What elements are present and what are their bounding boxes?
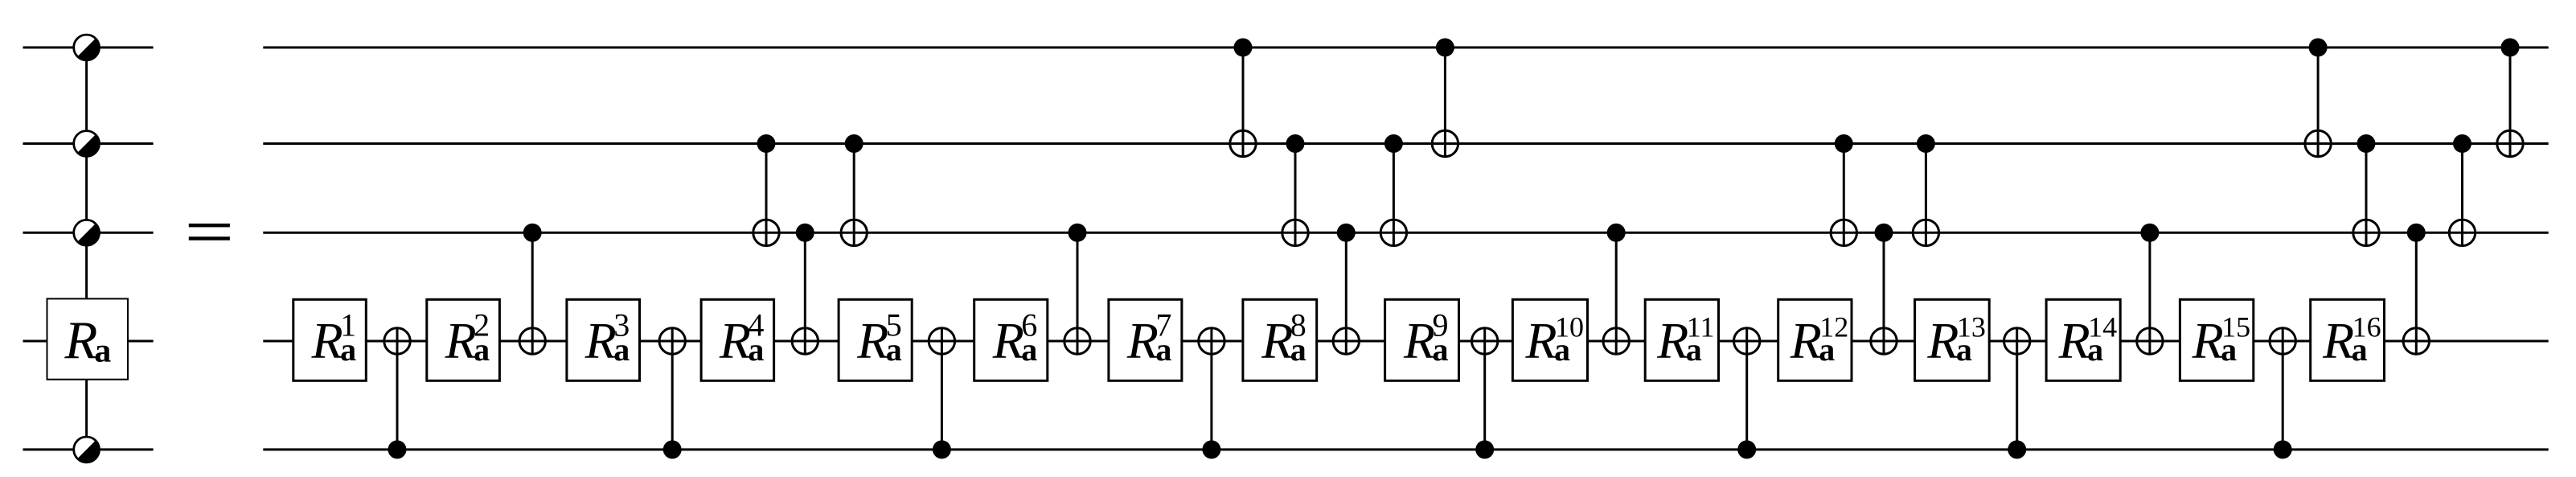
equals sign (189, 224, 230, 241)
svg-text:a: a (340, 331, 356, 368)
svg-text:a: a (886, 331, 902, 368)
CNOT (ctrl q1 -> target q2) #4: target XOR on qubit 2 (2497, 130, 2523, 156)
CNOT 8 (ctrl q3 -> target q4): control dot on qubit 3 (1337, 224, 1356, 242)
half-filled control on qubit 2 of gate Ra (74, 131, 100, 157)
CNOT 9 (ctrl q5 -> target q4): control dot on qubit 5 (1475, 440, 1494, 458)
gate box Ra^3 (rotation gate 3) (567, 299, 640, 380)
CNOT (ctrl q2 -> target q3) #4: target XOR on qubit 3 (1380, 220, 1406, 245)
CNOT 4 (ctrl q3 -> target q4): control dot on qubit 3 (796, 224, 814, 242)
gate box Ra^15 (rotation gate 15) (2180, 299, 2253, 380)
svg-text:R: R (311, 312, 343, 369)
CNOT 12 (ctrl q3 -> target q4): target XOR on qubit 4 (1871, 328, 1897, 354)
svg-text:a: a (1686, 331, 1702, 368)
gate box Ra (uniformly controlled rotation) (47, 298, 129, 379)
gate box Ra^4 (rotation gate 4) (701, 299, 774, 380)
half-filled control on qubit 1 of gate Ra (74, 35, 100, 60)
wire: qubit wire 1 (left) (23, 47, 154, 49)
CNOT 9 (ctrl q5 -> target q4): target XOR on qubit 4 (1472, 328, 1498, 354)
CNOT (ctrl q2 -> target q3) #8: control dot on qubit 2 (2453, 134, 2471, 153)
CNOT (ctrl q2 -> target q3) #3: control dot on qubit 2 (1286, 134, 1305, 153)
wire: qubit wire 2 (left) (23, 142, 154, 145)
CNOT 11 (ctrl q5 -> target q4): control-target connector wire (1745, 328, 1748, 450)
CNOT (ctrl q2 -> target q3) #1: control dot on qubit 2 (757, 134, 776, 153)
CNOT (ctrl q2 -> target q3) #7: target XOR on qubit 3 (2353, 220, 2379, 245)
svg-text:a: a (748, 331, 764, 368)
CNOT (ctrl q2 -> target q3) #8: control-target connector wire (2461, 144, 2463, 246)
svg-text:R: R (64, 310, 98, 370)
gate box Ra^9 (rotation gate 9) (1385, 299, 1459, 380)
svg-text:a: a (1021, 331, 1037, 368)
CNOT (ctrl q2 -> target q3) #2: target XOR on qubit 3 (841, 220, 867, 245)
CNOT 8 (ctrl q3 -> target q4): control-target connector wire (1345, 232, 1347, 354)
gate box Ra^11 (rotation gate 11) (1645, 299, 1718, 380)
CNOT 1 (ctrl q5 -> target q4): target XOR on qubit 4 (384, 328, 410, 354)
CNOT (ctrl q2 -> target q3) #3: target XOR on qubit 3 (1282, 220, 1308, 245)
CNOT (ctrl q1 -> target q2) #2: target XOR on qubit 2 (1432, 130, 1458, 156)
CNOT (ctrl q2 -> target q3) #5: target XOR on qubit 3 (1831, 220, 1856, 245)
svg-text:R: R (2192, 312, 2224, 369)
svg-text:a: a (1290, 331, 1306, 368)
svg-text:a: a (1819, 331, 1835, 368)
svg-text:R: R (719, 312, 751, 369)
CNOT 15 (ctrl q5 -> target q4): target XOR on qubit 4 (2270, 328, 2295, 354)
half-filled control on qubit 3 of gate Ra (74, 220, 100, 245)
CNOT 1 (ctrl q5 -> target q4): control-target connector wire (396, 328, 399, 450)
CNOT (ctrl q2 -> target q3) #1: target XOR on qubit 3 (753, 220, 779, 245)
CNOT 4 (ctrl q3 -> target q4): control-target connector wire (804, 232, 806, 354)
svg-text:R: R (1403, 312, 1435, 369)
CNOT 1 (ctrl q5 -> target q4): control dot on qubit 5 (388, 440, 407, 458)
CNOT 5 (ctrl q5 -> target q4): control dot on qubit 5 (933, 440, 951, 458)
svg-text:R: R (585, 312, 617, 369)
CNOT (ctrl q1 -> target q2) #2: control-target connector wire (1444, 47, 1446, 157)
CNOT (ctrl q2 -> target q3) #4: control dot on qubit 2 (1384, 134, 1403, 153)
CNOT 2 (ctrl q3 -> target q4): control-target connector wire (531, 232, 534, 354)
CNOT 6 (ctrl q3 -> target q4): control dot on qubit 3 (1069, 224, 1087, 242)
CNOT (ctrl q1 -> target q2) #3: target XOR on qubit 2 (2305, 130, 2331, 156)
wire: qubit wire 4 (left) (23, 340, 154, 343)
CNOT 14 (ctrl q3 -> target q4): control dot on qubit 3 (2140, 224, 2159, 242)
CNOT 16 (ctrl q3 -> target q4): target XOR on qubit 4 (2403, 328, 2429, 354)
CNOT (ctrl q2 -> target q3) #5: control dot on qubit 2 (1835, 134, 1853, 153)
gate box Ra^6 (rotation gate 6) (974, 299, 1048, 380)
wire: qubit wire 4 (right circuit) (263, 340, 2548, 343)
wire: qubit wire 3 (left) (23, 232, 154, 234)
CNOT 15 (ctrl q5 -> target q4): control dot on qubit 5 (2274, 440, 2292, 458)
CNOT 16 (ctrl q3 -> target q4): control dot on qubit 3 (2407, 224, 2426, 242)
CNOT (ctrl q2 -> target q3) #8: target XOR on qubit 3 (2449, 220, 2475, 245)
CNOT 13 (ctrl q5 -> target q4): control-target connector wire (2016, 328, 2018, 450)
CNOT (ctrl q2 -> target q3) #6: control dot on qubit 2 (1917, 134, 1935, 153)
CNOT (ctrl q1 -> target q2) #4: control-target connector wire (2509, 47, 2512, 157)
CNOT 14 (ctrl q3 -> target q4): target XOR on qubit 4 (2137, 328, 2163, 354)
CNOT (ctrl q2 -> target q3) #7: control dot on qubit 2 (2357, 134, 2376, 153)
CNOT (ctrl q1 -> target q2) #1: target XOR on qubit 2 (1230, 130, 1256, 156)
CNOT 11 (ctrl q5 -> target q4): target XOR on qubit 4 (1734, 328, 1760, 354)
CNOT 3 (ctrl q5 -> target q4): control dot on qubit 5 (663, 440, 682, 458)
CNOT 2 (ctrl q3 -> target q4): target XOR on qubit 4 (519, 328, 545, 354)
svg-text:a: a (2087, 331, 2103, 368)
CNOT (ctrl q2 -> target q3) #2: control dot on qubit 2 (845, 134, 863, 153)
CNOT 10 (ctrl q3 -> target q4): target XOR on qubit 4 (1603, 328, 1629, 354)
wire: qubit wire 5 (left) (23, 448, 154, 450)
CNOT 8 (ctrl q3 -> target q4): target XOR on qubit 4 (1333, 328, 1359, 354)
CNOT (ctrl q1 -> target q2) #3: control-target connector wire (2317, 47, 2320, 157)
CNOT 7 (ctrl q5 -> target q4): control dot on qubit 5 (1202, 440, 1220, 458)
svg-text:R: R (1790, 312, 1822, 369)
CNOT 5 (ctrl q5 -> target q4): control-target connector wire (941, 328, 943, 450)
CNOT 3 (ctrl q5 -> target q4): target XOR on qubit 4 (659, 328, 685, 354)
gate box Ra^14 (rotation gate 14) (2046, 299, 2120, 380)
CNOT (ctrl q2 -> target q3) #1: control-target connector wire (765, 144, 768, 246)
svg-text:R: R (445, 312, 477, 369)
CNOT 12 (ctrl q3 -> target q4): control-target connector wire (1883, 232, 1885, 354)
CNOT 13 (ctrl q5 -> target q4): target XOR on qubit 4 (2004, 328, 2030, 354)
svg-text:a: a (1155, 331, 1171, 368)
CNOT 16 (ctrl q3 -> target q4): control-target connector wire (2415, 232, 2418, 354)
svg-text:a: a (613, 331, 630, 368)
half-filled control on qubit 5 of gate Ra (74, 437, 100, 463)
CNOT (ctrl q1 -> target q2) #1: control-target connector wire (1242, 47, 1245, 157)
CNOT (ctrl q2 -> target q3) #4: control-target connector wire (1393, 144, 1395, 246)
CNOT 7 (ctrl q5 -> target q4): target XOR on qubit 4 (1199, 328, 1224, 354)
svg-text:a: a (1554, 331, 1570, 368)
gate box Ra^12 (rotation gate 12) (1778, 299, 1852, 380)
CNOT 10 (ctrl q3 -> target q4): control-target connector wire (1615, 232, 1618, 354)
CNOT 2 (ctrl q3 -> target q4): control dot on qubit 3 (523, 224, 542, 242)
svg-text:R: R (1525, 312, 1557, 369)
gate box Ra^13 (rotation gate 13) (1915, 299, 1990, 380)
svg-text:a: a (474, 331, 490, 368)
wire: qubit wire 1 (right circuit) (263, 47, 2548, 49)
gate box Ra^10 (rotation gate 10) (1512, 299, 1587, 380)
svg-text:R: R (1926, 312, 1959, 369)
gate box Ra^1 (rotation gate 1) (293, 299, 367, 380)
svg-text:a: a (2221, 331, 2237, 368)
CNOT 4 (ctrl q3 -> target q4): target XOR on qubit 4 (792, 328, 818, 354)
CNOT 7 (ctrl q5 -> target q4): control-target connector wire (1210, 328, 1212, 450)
CNOT 9 (ctrl q5 -> target q4): control-target connector wire (1483, 328, 1486, 450)
CNOT 10 (ctrl q3 -> target q4): control dot on qubit 3 (1607, 224, 1626, 242)
wire: qubit wire 5 (right circuit) (263, 448, 2548, 450)
CNOT 13 (ctrl q5 -> target q4): control dot on qubit 5 (2008, 440, 2026, 458)
svg-text:R: R (992, 312, 1024, 369)
gate box Ra^8 (rotation gate 8) (1243, 299, 1317, 380)
CNOT (ctrl q2 -> target q3) #7: control-target connector wire (2365, 144, 2368, 246)
svg-text:R: R (1126, 312, 1159, 369)
CNOT 6 (ctrl q3 -> target q4): target XOR on qubit 4 (1064, 328, 1090, 354)
gate box Ra^2 (rotation gate 2) (427, 299, 500, 380)
CNOT 11 (ctrl q5 -> target q4): control dot on qubit 5 (1737, 440, 1756, 458)
CNOT (ctrl q2 -> target q3) #6: control-target connector wire (1925, 144, 1927, 246)
gate box Ra^16 (rotation gate 16) (2311, 299, 2385, 380)
CNOT (ctrl q2 -> target q3) #3: control-target connector wire (1294, 144, 1297, 246)
CNOT (ctrl q1 -> target q2) #1: control dot on qubit 1 (1234, 39, 1253, 57)
wire: vertical control line of uniformly-controlled gate (85, 47, 88, 450)
svg-text:a: a (94, 333, 111, 370)
svg-text:R: R (856, 312, 888, 369)
svg-text:a: a (2352, 331, 2368, 368)
svg-text:R: R (2322, 312, 2354, 369)
wire: qubit wire 2 (right circuit) (263, 142, 2548, 145)
CNOT (ctrl q1 -> target q2) #2: control dot on qubit 1 (1436, 39, 1454, 57)
CNOT 6 (ctrl q3 -> target q4): control-target connector wire (1077, 232, 1079, 354)
CNOT 5 (ctrl q5 -> target q4): target XOR on qubit 4 (929, 328, 954, 354)
svg-text:R: R (2058, 312, 2090, 369)
gate box Ra^7 (rotation gate 7) (1109, 299, 1182, 380)
CNOT (ctrl q2 -> target q3) #2: control-target connector wire (853, 144, 855, 246)
gate box Ra^5 (rotation gate 5) (839, 299, 912, 380)
CNOT 12 (ctrl q3 -> target q4): control dot on qubit 3 (1875, 224, 1893, 242)
svg-text:a: a (1433, 331, 1449, 368)
svg-text:a: a (1956, 331, 1972, 368)
CNOT (ctrl q2 -> target q3) #5: control-target connector wire (1843, 144, 1845, 246)
CNOT 14 (ctrl q3 -> target q4): control-target connector wire (2148, 232, 2151, 354)
CNOT (ctrl q1 -> target q2) #4: control dot on qubit 1 (2501, 39, 2520, 57)
svg-text:R: R (1656, 312, 1688, 369)
CNOT (ctrl q2 -> target q3) #6: target XOR on qubit 3 (1913, 220, 1938, 245)
CNOT 15 (ctrl q5 -> target q4): control-target connector wire (2282, 328, 2284, 450)
CNOT 3 (ctrl q5 -> target q4): control-target connector wire (671, 328, 674, 450)
wire: qubit wire 3 (right circuit) (263, 232, 2548, 234)
CNOT (ctrl q1 -> target q2) #3: control dot on qubit 1 (2309, 39, 2328, 57)
svg-text:R: R (1261, 312, 1293, 369)
